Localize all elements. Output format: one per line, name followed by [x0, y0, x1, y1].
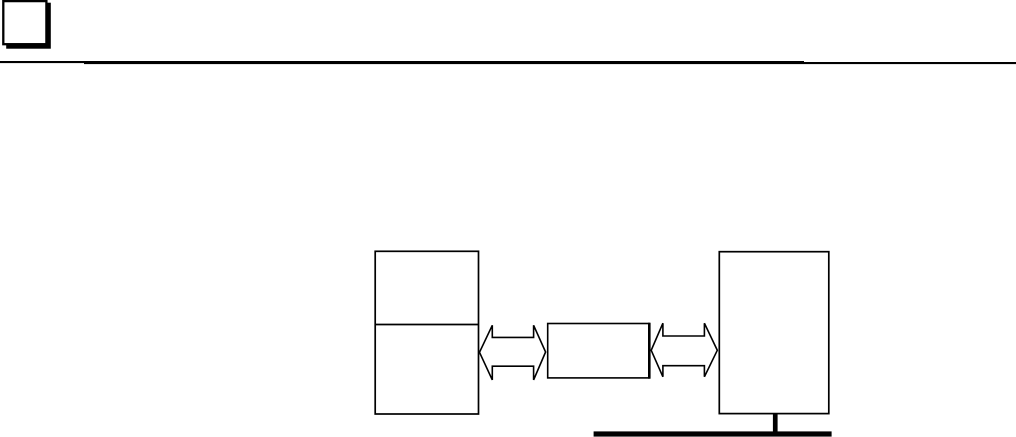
bus bar	[594, 431, 832, 436]
right box (PLC)	[719, 252, 829, 414]
header rule right segment	[84, 62, 1016, 64]
middle box (adapter)	[548, 324, 649, 378]
middle box thick right edge	[648, 323, 651, 379]
double arrow right (adapter to PLC)	[651, 323, 717, 377]
left box divider	[375, 324, 478, 326]
note icon square	[3, 1, 46, 44]
double arrow left (PG to adapter)	[480, 325, 546, 380]
note icon shadow	[6, 3, 51, 49]
drop line from right box to bus	[773, 414, 778, 432]
left box (PG/PC)	[375, 251, 478, 414]
header rule left segment	[0, 61, 804, 63]
